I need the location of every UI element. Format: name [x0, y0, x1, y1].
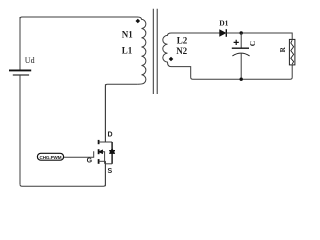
channel segment top	[98, 140, 100, 144]
source stub	[99, 160, 106, 162]
svg-text:R: R	[279, 46, 287, 52]
source wire	[104, 161, 106, 186]
channel segment middle	[98, 149, 100, 154]
diode D1	[220, 30, 226, 37]
PWM controller block CHG.PWM	[37, 153, 63, 160]
svg-text:Ud: Ud	[25, 56, 35, 65]
battery Ud	[19, 17, 21, 70]
body diode bar	[111, 142, 113, 164]
svg-text:G: G	[87, 158, 93, 165]
drain stub bar	[99, 141, 113, 143]
node junction bottom (cap to return rail)	[240, 78, 243, 81]
coupling dot secondary	[169, 57, 174, 62]
wire diode to resistor top	[226, 33, 292, 39]
wire output return to resistor	[241, 65, 292, 79]
plus sign polarity	[234, 40, 239, 45]
inductor L2 secondary winding	[163, 33, 172, 67]
capacitor C	[240, 33, 242, 48]
wire bottom rail	[20, 161, 105, 186]
svg-text:D1: D1	[219, 19, 228, 28]
inductor L1 primary winding	[138, 17, 146, 84]
svg-text:D: D	[108, 131, 113, 138]
svg-text:L2: L2	[177, 35, 188, 45]
source bottom bar	[105, 163, 112, 165]
svg-text:L1: L1	[122, 46, 133, 56]
wire primary bottom to drain	[105, 84, 137, 142]
bulk arrow	[98, 150, 102, 154]
svg-text:N1: N1	[122, 30, 133, 40]
svg-text:C: C	[248, 41, 257, 46]
gate wire	[64, 151, 94, 157]
svg-text:S: S	[108, 168, 113, 175]
svg-text:N2: N2	[176, 46, 187, 56]
coupling dot primary	[136, 19, 141, 24]
body diode	[109, 148, 115, 153]
wire secondary bottom to output return	[171, 67, 241, 80]
resistor R	[289, 39, 295, 65]
node junction top (cap to top rail)	[240, 31, 243, 34]
wire secondary top to diode	[172, 32, 220, 34]
drain wire	[104, 84, 106, 142]
wire top rail from battery to primary	[20, 17, 138, 19]
svg-text:CHG.PWM: CHG.PWM	[39, 155, 61, 160]
channel segment bottom	[98, 159, 100, 164]
transformer core	[153, 9, 157, 94]
